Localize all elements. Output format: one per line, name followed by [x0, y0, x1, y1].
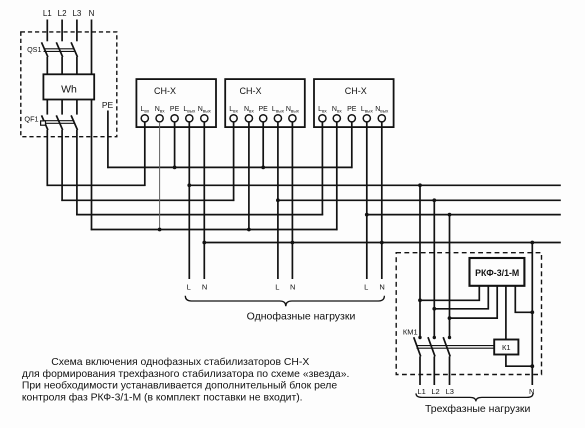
wire L2 QF1 down to L2 bus: [61, 130, 63, 201]
wire L2 QS1 to Wh: [61, 57, 63, 75]
wire box2 Lвых down to load: [277, 122, 279, 279]
input panel enclosure (dashed): [21, 32, 117, 137]
wire box1 Lвх to L1 bus: [144, 122, 146, 186]
brace single-phase loads: [185, 296, 384, 306]
wire N supply to meter Wh: [91, 20, 93, 75]
svg-text:QS1: QS1: [27, 45, 41, 54]
wire box2 Nвых down to load: [291, 122, 293, 279]
stabilizer unit CH-X #1: [136, 79, 216, 127]
svg-text:Lвых: Lвых: [183, 106, 196, 113]
svg-text:L1: L1: [418, 387, 426, 396]
svg-text:Схема включения однофазных ста: Схема включения однофазных стабилизаторо…: [51, 356, 309, 368]
svg-text:Lвх: Lвх: [318, 106, 327, 113]
svg-text:Wh: Wh: [61, 83, 77, 95]
wire L3 Wh to QF1: [76, 100, 78, 115]
disconnector QS1: [27, 42, 77, 57]
svg-text:Lвх: Lвх: [140, 106, 149, 113]
wire L3 output bus: [367, 214, 561, 216]
wire box3 Lвых down to load: [366, 122, 368, 279]
wire L1 supply to QS1: [46, 20, 48, 42]
relay coil K1: [494, 340, 518, 355]
wire L3 QF1 down to L3 bus: [76, 130, 78, 216]
wire N Wh down to N bus: [91, 100, 93, 231]
svg-text:Nвых: Nвых: [198, 106, 212, 113]
wire KM1 pole3 to load L3: [449, 356, 451, 385]
junction РКФ pin3 on L3 drop: [448, 316, 452, 320]
svg-text:Nвх: Nвх: [332, 106, 343, 113]
junction box2 Nвых on N output bus: [291, 241, 295, 245]
svg-text:N: N: [529, 387, 534, 396]
svg-text:L3: L3: [72, 9, 81, 18]
caption text: [22, 356, 350, 403]
wire box3 PE to PE bus: [351, 122, 353, 168]
wire L2 drop to KM1: [433, 200, 435, 337]
energy meter Wh: [43, 74, 94, 99]
wire box2 PE to PE bus: [262, 122, 264, 167]
svg-text:PE: PE: [170, 106, 180, 113]
wire K1 to N drop: [506, 355, 532, 367]
wire L2 output bus: [278, 199, 561, 201]
wire L2 Wh to QF1: [61, 100, 63, 115]
wire РКФ pin3 to L3 drop: [450, 286, 498, 318]
stabilizer unit CH-X #3: [314, 79, 394, 127]
wire L3 supply to QS1: [76, 20, 78, 42]
wire РКФ pin1 to L1 drop: [420, 286, 479, 301]
wire РКФ pin2 to L2 drop: [434, 286, 488, 309]
phase control relay РКФ-3/1-М: [470, 258, 525, 286]
junction box2 Nвх on N bus: [247, 228, 251, 232]
wire KM1 pole2 to load L2: [433, 356, 435, 385]
svg-text:L3: L3: [446, 387, 454, 396]
svg-text:К1: К1: [502, 343, 511, 352]
svg-text:Lвх: Lвх: [229, 106, 238, 113]
junction box2 Lвых on L2 output bus: [276, 198, 280, 202]
wire L3 drop to KM1: [449, 215, 451, 337]
wire box1 Nвх to N bus (thin): [159, 122, 161, 230]
svg-text:PE: PE: [259, 106, 269, 113]
svg-text:N: N: [290, 282, 295, 291]
wire box3 Nвых down to load: [381, 122, 383, 279]
svg-text:для формирования трехфазного с: для формирования трехфазного стабилизато…: [22, 368, 350, 380]
wire РКФ pin4 to relay coil K1: [505, 286, 507, 340]
svg-text:СН-Х: СН-Х: [154, 86, 176, 96]
wire box2 Lвх to L2 bus: [233, 122, 235, 201]
wire L2 supply to QS1: [61, 20, 63, 42]
junction K1 return on N drop: [530, 364, 534, 368]
wire N input bus: [91, 229, 338, 231]
junction РКФ pin5 on N drop: [530, 310, 534, 314]
svg-text:L2: L2: [58, 9, 67, 18]
junction box1 PE on PE bus: [173, 166, 177, 170]
junction box1 Lвых on L1 output bus: [187, 183, 191, 187]
svg-text:L: L: [275, 282, 279, 291]
brace three-phase loads: [416, 393, 533, 401]
wire N drop to load N: [531, 243, 533, 386]
junction L2 tap: [432, 198, 436, 202]
wire L3 QS1 to Wh: [76, 57, 78, 75]
wire box3 Lвх to L3 bus: [321, 122, 323, 215]
wire L1 QF1 down to L1 bus: [46, 130, 48, 186]
wire box1 Lвых down to load: [188, 122, 190, 279]
svg-text:Lвых: Lвых: [272, 106, 285, 113]
wire N output bus: [204, 242, 561, 244]
svg-text:N: N: [202, 282, 207, 291]
svg-text:КМ1: КМ1: [403, 327, 418, 336]
wire KM1 pole1 to load L1: [419, 356, 421, 385]
three-phase enclosure (dashed): [396, 253, 541, 375]
svg-text:контроля фаз РКФ-3/1-М (в комп: контроля фаз РКФ-3/1-М (в комплект поста…: [22, 391, 303, 403]
svg-text:PE: PE: [347, 106, 357, 113]
wire PE bus: [107, 166, 352, 168]
junction L3 tap: [448, 213, 452, 217]
junction box3 Nвых on N output bus: [380, 241, 384, 245]
wire L1 QS1 to Wh: [46, 57, 48, 75]
junction box2 PE on PE bus: [261, 166, 265, 170]
stabilizer unit CH-X #2: [225, 79, 305, 127]
wire box1 PE to PE bus: [174, 122, 176, 167]
wire L1 Wh to QF1: [46, 100, 48, 115]
svg-text:Трехфазные нагрузки: Трехфазные нагрузки: [425, 403, 531, 415]
contactor KM1: [403, 327, 494, 356]
wire L1 output bus: [189, 184, 561, 186]
svg-text:QF1: QF1: [24, 114, 38, 123]
svg-text:N: N: [379, 282, 384, 291]
svg-text:РКФ-3/1-М: РКФ-3/1-М: [475, 268, 519, 278]
junction N tap: [530, 241, 534, 245]
svg-text:L: L: [364, 282, 368, 291]
wire L3 input bus: [76, 214, 323, 216]
svg-text:Nвх: Nвх: [244, 106, 255, 113]
wire L1 drop to KM1: [419, 185, 421, 337]
junction РКФ pin1 on L1 drop: [418, 298, 422, 302]
junction box1 Nвх on N bus: [158, 228, 162, 232]
svg-text:При необходимости устанавливае: При необходимости устанавливается дополн…: [22, 380, 337, 392]
wire box2 Nвх to N bus: [248, 122, 250, 230]
junction box3 Lвых on L3 output bus: [365, 213, 369, 217]
junction box1 Nвых on N output bus: [202, 241, 206, 245]
wire box1 Nвых down to load: [203, 122, 205, 279]
wire PE drop to PE bus: [107, 111, 109, 169]
svg-text:Lвых: Lвых: [361, 106, 374, 113]
svg-text:L: L: [187, 282, 191, 291]
svg-text:Nвх: Nвх: [155, 106, 166, 113]
svg-text:Nвых: Nвых: [286, 106, 300, 113]
junction РКФ pin2 on L2 drop: [432, 307, 436, 311]
svg-text:L1: L1: [43, 9, 52, 18]
wire box3 Nвх to N bus: [336, 122, 338, 230]
svg-text:Однофазные нагрузки: Однофазные нагрузки: [247, 310, 356, 322]
svg-text:PE: PE: [102, 100, 114, 110]
svg-text:Nвых: Nвых: [375, 106, 389, 113]
wire L2 input bus: [61, 199, 234, 201]
svg-text:L2: L2: [431, 387, 439, 396]
svg-text:N: N: [89, 9, 95, 18]
wire РКФ pin5 to N drop: [515, 286, 532, 313]
svg-text:СН-Х: СН-Х: [345, 86, 367, 96]
junction L1 tap: [418, 183, 422, 187]
circuit breaker QF1: [24, 114, 77, 130]
svg-text:СН-Х: СН-Х: [240, 86, 262, 96]
wire L1 input bus: [47, 184, 146, 186]
